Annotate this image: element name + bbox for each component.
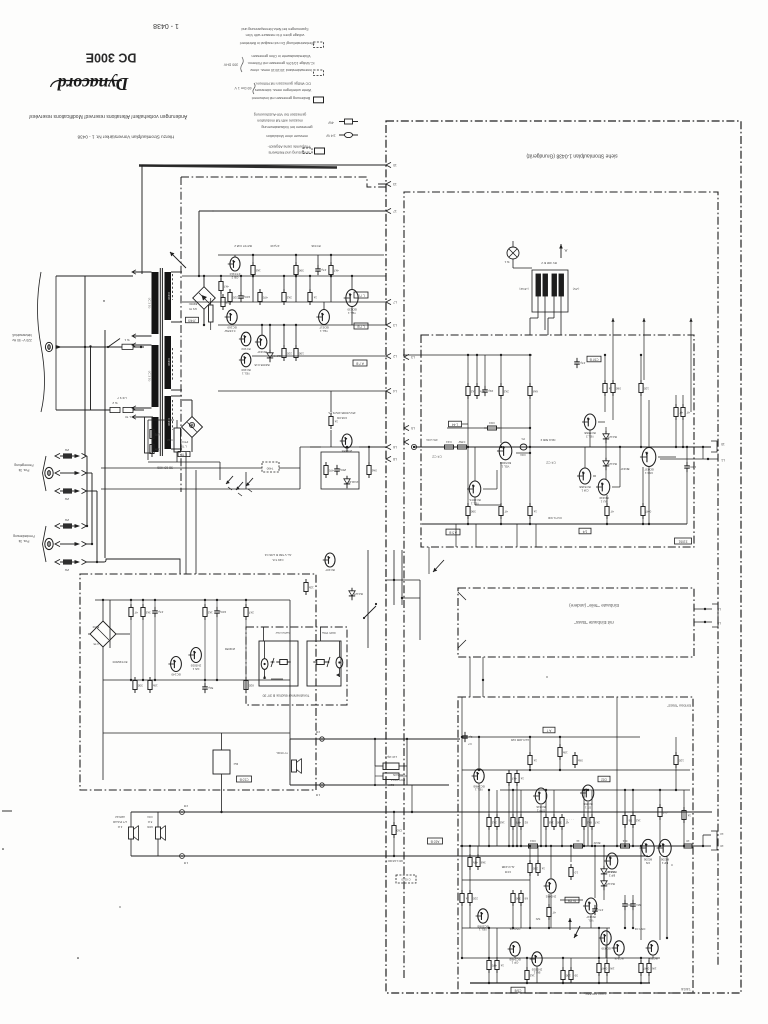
netzteil lower rail (102, 733, 104, 780)
svg-text:C230: C230 (167, 358, 171, 366)
arrow A marker (560, 244, 562, 258)
wire bridge Gr2 down-leads (185, 452, 187, 574)
resistor R26 (368, 462, 370, 466)
svg-text:L5: L5 (411, 426, 415, 430)
svg-text:Spannungen bei Netz-Nennspannu: Spannungen bei Netz-Nennspannung und (241, 27, 308, 31)
box C extra resistor Rb (683, 807, 685, 811)
svg-text:47µ: 47µ (158, 610, 163, 614)
svg-text:1k: 1k (687, 813, 691, 817)
svg-text:AL-V 560 B L/26 C4: AL-V 560 B L/26 C4 (264, 553, 291, 557)
transistor T1 (230, 257, 240, 271)
svg-text:S/N: S/N (536, 917, 541, 921)
box C h-resistor on bus 1 (525, 845, 529, 847)
box A resistor column x477 (476, 383, 478, 387)
svg-text:L3: L3 (393, 323, 397, 327)
box A capacitor C101 (576, 358, 578, 362)
box C boxed label A7 (543, 727, 555, 733)
svg-text:56: 56 (628, 818, 632, 822)
box A boxed label quarter (579, 528, 591, 534)
svg-text:C96 D6: C96 D6 (337, 416, 348, 420)
box C capacitor C203 (464, 732, 466, 736)
box C A arrow (569, 918, 571, 930)
box C boxed label k8 (565, 897, 579, 903)
transistor T101 (499, 442, 512, 460)
designation box C7B-1 (354, 292, 368, 298)
legend text block (240, 27, 315, 155)
svg-text:1 B: 1 B (316, 793, 320, 797)
svg-text:C8W: C8W (459, 440, 466, 444)
svg-text:C64: C64 (520, 453, 526, 457)
transformer Tr1 primary taps (133, 271, 152, 273)
svg-text:47: 47 (610, 509, 614, 513)
svg-text:GS 1: GS 1 (192, 667, 199, 671)
transistor T208 (606, 853, 618, 869)
scan speck 3 (77, 957, 79, 959)
svg-text:messure ohne Modulation: messure ohne Modulation (266, 134, 307, 138)
svg-text:3k3: 3k3 (146, 610, 151, 614)
capacitor C12 (317, 265, 319, 269)
svg-text:Si 1: Si 1 (124, 338, 130, 342)
svg-text:10: 10 (686, 839, 690, 843)
box C capacitor C201 (624, 900, 626, 904)
box C arrow marker (574, 926, 580, 938)
wire supply rail 325 (218, 324, 386, 326)
svg-text:measure with full modulation: measure with full modulation (257, 118, 303, 122)
resistor R22 (151, 426, 153, 430)
svg-text:C-0100: C-0100 (401, 878, 411, 882)
svg-text:13: 13 (720, 832, 724, 836)
svg-text:12k: 12k (308, 585, 313, 589)
box A resistor x501 (500, 383, 502, 387)
capacitor C11 (240, 292, 242, 296)
svg-text:( C 3 0 ): ( C 3 0 ) (148, 371, 152, 382)
svg-text:L2: L2 (393, 354, 397, 358)
speaker LS3 (292, 760, 297, 772)
resistor R24 (330, 413, 332, 417)
wire supply rail 276 (230, 275, 386, 277)
wire supply rail 356 (252, 355, 386, 357)
svg-text:C75: C75 (93, 642, 99, 646)
transformer Tr1 core (159, 268, 161, 456)
svg-text:220: 220 (232, 295, 237, 299)
svg-text:220 V~ 50 Hz: 220 V~ 50 Hz (12, 338, 32, 342)
transistor T3 (241, 332, 251, 346)
svg-text:Einbaute "Teile" (andere): Einbaute "Teile" (andere) (569, 603, 619, 608)
frame terminal L2 (386, 353, 391, 358)
svg-text:C67 B: C67 B (590, 357, 599, 361)
transistor T105 (598, 479, 610, 495)
svg-text:10k: 10k (562, 750, 567, 754)
resistor R13 (252, 262, 254, 266)
led arrows cluster (226, 476, 233, 484)
svg-text:J74/9: J74/9 (188, 318, 196, 322)
svg-text:4k7: 4k7 (224, 284, 229, 288)
svg-text:5k6: 5k6 (372, 468, 377, 472)
svg-text:47µ/40: 47µ/40 (270, 244, 279, 248)
transistor T206 (582, 785, 594, 801)
svg-text:1k: 1k (533, 509, 537, 513)
svg-text:C4 C2: C4 C2 (432, 455, 442, 459)
svg-text:7400: 7400 (266, 466, 273, 470)
aux input 1 connector (45, 467, 53, 478)
svg-text:AL/V-4/9B: AL/V-4/9B (502, 865, 515, 869)
svg-text:2W: 2W (65, 568, 70, 572)
svg-text:390: 390 (470, 509, 475, 513)
svg-text:2k7: 2k7 (249, 610, 254, 614)
svg-text:C62: C62 (601, 777, 607, 781)
legend symbol solid box (314, 97, 324, 103)
svg-text:BA127: BA127 (607, 462, 616, 466)
mains brace (38, 272, 45, 412)
strip resistor R27 (305, 579, 307, 583)
svg-text:3 B: 3 B (184, 804, 188, 808)
transistor T202 (478, 909, 488, 923)
transistor T204 (532, 952, 542, 966)
connector plug circle (507, 247, 519, 259)
strip diode D13 (351, 588, 353, 591)
box A resistor x683 (682, 404, 684, 408)
svg-text:0.47: 0.47 (643, 966, 649, 970)
svg-text:1 - 0438: 1 - 0438 (153, 22, 179, 29)
netzteil resistor R33 (204, 604, 206, 608)
wires strip below box A (428, 547, 430, 574)
svg-text:CM 1: CM 1 (581, 488, 588, 492)
meter M1 slash element (271, 658, 274, 667)
wire mains to fuse (56, 345, 63, 349)
svg-text:DC-Wdtge gemessen mit Röhrenv.: DC-Wdtge gemessen mit Röhrenv. (255, 81, 310, 85)
svg-text:69 Dm 1 V: 69 Dm 1 V (234, 86, 252, 90)
box C vertical wires (478, 737, 480, 768)
svg-text:OS/Y-04: OS/Y-04 (634, 927, 645, 931)
svg-text:Einbau "Bass": Einbau "Bass" (666, 703, 691, 707)
svg-text:BZY97: BZY97 (271, 354, 281, 358)
svg-text:L/T PULAR: L/T PULAR (113, 820, 127, 824)
svg-text:1 B: 1 B (184, 861, 188, 865)
meter resistor R42 (313, 661, 317, 663)
svg-text:1k5: 1k5 (256, 268, 261, 272)
svg-text:Pos. 3k: Pos. 3k (18, 468, 29, 472)
svg-text:L70: L70 (154, 432, 159, 436)
svg-text:GP 1: GP 1 (511, 961, 518, 965)
box A resistor column x468 (467, 383, 469, 387)
wire mains riser to supply (90, 347, 92, 410)
svg-text:10: 10 (574, 870, 578, 874)
svg-text:1k5: 1k5 (549, 820, 554, 824)
strip switch (364, 606, 376, 618)
box A horizontal links (474, 497, 476, 505)
box C boxed label C62 (598, 776, 610, 782)
svg-text:47: 47 (134, 610, 138, 614)
svg-text:6k8: 6k8 (533, 389, 538, 393)
aux 2 row resistor R2d (55, 559, 60, 564)
svg-text:47n: 47n (598, 908, 603, 912)
svg-text:mit Einbaute "Bass": mit Einbaute "Bass" (574, 620, 614, 625)
thermistor block (190, 428, 192, 430)
svg-text:1k2: 1k2 (208, 610, 213, 614)
svg-text:2k2: 2k2 (492, 820, 497, 824)
wire relay to speaker rail (221, 785, 223, 812)
transistor T10 (171, 657, 182, 672)
box A diode D102 (605, 458, 607, 461)
svg-text:100µ: 100µ (219, 610, 226, 614)
frame terminal 13 (386, 181, 391, 186)
svg-text:BC/R: BC/R (594, 841, 601, 845)
wire stub x691 (690, 318, 692, 412)
svg-text:47: 47 (552, 910, 556, 914)
svg-text:13: 13 (393, 182, 397, 186)
legend symbol dashed box 2 (314, 70, 324, 75)
svg-text:Netzanschluß: Netzanschluß (12, 333, 32, 337)
box A top rail (403, 354, 532, 356)
box A right bracket (711, 441, 717, 452)
svg-text:Tonabnehmer-Buchse B 3/7 30: Tonabnehmer-Buchse B 3/7 30 (263, 694, 310, 698)
box A channel-1 dash-dot frame (421, 335, 694, 547)
strip wires (393, 812, 395, 825)
svg-text:BA127: BA127 (353, 592, 362, 596)
svg-text:L5: L5 (717, 607, 721, 611)
svg-text:Si 2: Si 2 (112, 401, 118, 405)
svg-text:PTC/R: PTC/R (180, 440, 188, 444)
box A lower resistor x530 (529, 503, 531, 507)
frame terminal L8 (386, 456, 391, 461)
capacitor C104 (383, 773, 399, 780)
speaker LS2 (156, 827, 161, 839)
box C rail 958 (462, 957, 660, 959)
aux 1 row direct (55, 470, 60, 475)
svg-text:C104: C104 (387, 783, 394, 787)
legend symbol dashed box 1 (314, 42, 324, 47)
svg-text:BYX36: BYX36 (311, 244, 320, 248)
svg-text:A 7 B: A 7 B (356, 361, 364, 365)
box C bus terminals bracket (703, 834, 711, 836)
svg-text:4 Ω: 4 Ω (118, 825, 122, 829)
aux input 2 connector (45, 538, 53, 549)
choke Dr1 windings (536, 274, 541, 296)
aux 1 row resistor R2b (55, 488, 60, 493)
speaker drops (130, 812, 132, 827)
wire top feed (141, 165, 143, 274)
svg-text:C6/8: C6/8 (514, 988, 521, 992)
netzteil wires top (95, 599, 290, 601)
box A resistor x530 (529, 383, 531, 387)
transistor T7 (319, 310, 330, 325)
svg-text:L8: L8 (393, 457, 397, 461)
box C extra density wires (594, 846, 596, 898)
svg-text:8k2: 8k2 (587, 820, 592, 824)
wire stub x613 (612, 318, 614, 383)
transistor T205 (535, 788, 547, 804)
transistor T209 output (642, 839, 654, 856)
svg-text:0.15/5W: 0.15/5W (224, 329, 235, 333)
wire speaker top rail (131, 811, 712, 813)
svg-text:Fernregelung: Fernregelung (14, 463, 33, 467)
box A junction dots (467, 354, 469, 356)
sieb box 1 outline (259, 641, 298, 686)
svg-text:4W: 4W (328, 120, 334, 124)
svg-text:4k7: 4k7 (334, 268, 339, 272)
svg-text:L 70: L 70 (125, 415, 131, 419)
resistor R12 (229, 289, 231, 293)
box C rail 770 (462, 769, 690, 771)
relay designation (237, 776, 252, 782)
svg-text:Werte unterliegen mess. tolera: Werte unterliegen mess. tolerances (255, 88, 312, 92)
vertical wires below box A (455, 524, 457, 547)
frame terminal 17 (386, 208, 391, 213)
svg-text:AL/V-40B C26: AL/V-40B C26 (510, 738, 529, 742)
svg-text:1k5: 1k5 (500, 820, 505, 824)
strip resistor R51 (393, 822, 395, 826)
resistor R15 (283, 289, 285, 293)
svg-text:CU/YL 6/R B/W: CU/YL 6/R B/W (585, 992, 606, 996)
netzteil resistor R32 (142, 604, 144, 608)
transformer adjust arrow (170, 252, 186, 268)
svg-text:220: 220 (286, 351, 291, 355)
strip transistor T9 (325, 553, 335, 567)
capacitor C13 (336, 465, 338, 469)
wire to transformer third winding (133, 409, 144, 411)
wire rail 447 regulator (300, 446, 386, 448)
svg-text:330: 330 (137, 683, 142, 687)
wire mid rail 785 (290, 784, 449, 786)
svg-text:Dynacord: Dynacord (57, 74, 129, 94)
svg-text:BC140: BC140 (171, 673, 181, 677)
svg-text:1k: 1k (500, 963, 504, 967)
netzteil capacitor C33 (204, 683, 206, 687)
resistor R25 (325, 462, 327, 466)
meter M2 slash element (327, 657, 330, 667)
transformer G3 primary outline box (145, 417, 153, 453)
netzteil resistor R34 (245, 604, 247, 608)
svg-text:330: 330 (556, 820, 561, 824)
transistor T106 (642, 448, 656, 467)
frame terminal L3a (386, 322, 391, 327)
box A lower resistor x607 (606, 503, 608, 507)
svg-text:220: 220 (532, 866, 537, 870)
outer dash-dot frame Grundgeraet (386, 121, 741, 993)
aux 1 brace (43, 456, 47, 491)
svg-text:Änderungen vorbehalten! Alte: Änderungen vorbehalten! Alterations rese… (29, 113, 187, 120)
svg-text:BZY97 C48 2: BZY97 C48 2 (234, 244, 252, 248)
svg-text:10: 10 (720, 844, 724, 848)
Netzteil dash-dot frame (80, 574, 316, 790)
svg-text:1k: 1k (541, 866, 545, 870)
svg-text:BZX85 C15: BZX85 C15 (254, 363, 269, 367)
aux 2 brace (43, 526, 47, 562)
box C bottom rail (470, 982, 650, 984)
designation box A7B (353, 360, 367, 366)
box A boxed label C67B (587, 356, 601, 362)
strip boxed label A10B (428, 838, 443, 844)
svg-text:Werkseinstellung! Do not readj: Werkseinstellung! Do not readjust in Bet… (240, 41, 315, 45)
svg-text:Pos. 3k: Pos. 3k (18, 539, 29, 543)
power section dash-dot boundary (181, 177, 386, 187)
svg-text:100: 100 (298, 351, 303, 355)
meter M2 wires (338, 641, 340, 657)
svg-text:47p: 47p (580, 361, 585, 365)
box A lower resistor x643 (642, 503, 644, 507)
svg-text:470: 470 (515, 820, 520, 824)
svg-text:1/4 W: 1/4 W (326, 133, 336, 137)
scan speck 5 (546, 676, 547, 677)
aux column verticals (86, 456, 88, 526)
bridge rectifier Gr1 (193, 287, 216, 310)
transistor T207 (585, 898, 597, 914)
wire mains vertical riser (84, 276, 86, 456)
svg-text:1k: 1k (313, 295, 317, 299)
box C diode D201 (603, 866, 605, 869)
netzteil lower wires (102, 680, 104, 733)
svg-text:8 Ω: 8 Ω (148, 820, 152, 824)
box B dash-dot frame Einbau Teile (458, 588, 694, 657)
resistor R14 (259, 289, 261, 293)
svg-text:C64: C64 (530, 839, 536, 843)
box A left edge terminals (404, 354, 409, 359)
svg-text:4k7: 4k7 (512, 776, 517, 780)
svg-text:C230: C230 (167, 292, 171, 300)
svg-text:17: 17 (393, 209, 397, 213)
svg-text:0.22: 0.22 (167, 438, 173, 442)
transistor T203 (510, 942, 520, 956)
svg-text:BD437: BD437 (620, 467, 629, 471)
aux 2 row resistor R2c (55, 523, 60, 528)
resistor R16 (295, 262, 297, 266)
svg-text:NF/A 50B 3: NF/A 50B 3 (540, 438, 555, 442)
svg-text:47k LOG: 47k LOG (425, 438, 437, 442)
filter connections (374, 739, 376, 766)
transistor T102 (469, 481, 481, 497)
wire lower input horizontal (55, 276, 57, 410)
svg-text:1W: 1W (610, 966, 615, 970)
svg-text:45V+500B 40V/2,7A: 45V+500B 40V/2,7A (328, 411, 355, 415)
resistor R10 (222, 294, 224, 298)
box C rail 790 (500, 789, 690, 791)
inductor L10 (383, 763, 399, 770)
svg-text:10: 10 (721, 442, 725, 446)
transistor T212 (546, 879, 556, 893)
netzteil resistor R35 (134, 677, 136, 681)
resistor R11 (220, 278, 222, 282)
box C h-resistor on bus 2 (570, 845, 574, 847)
transistor T213 (614, 941, 624, 955)
box C main bus (460, 845, 703, 847)
svg-text:YEL 1: YEL 1 (479, 928, 487, 932)
svg-text:BRAUN: BRAUN (393, 773, 403, 777)
transistor T210 output (659, 839, 671, 856)
box A diode D101 (605, 431, 607, 434)
svg-text:31061: 31061 (678, 539, 687, 543)
resistor R19 (283, 345, 285, 349)
svg-text:C04: C04 (147, 815, 153, 819)
svg-text:(+5Vdc): (+5Vdc) (519, 287, 528, 291)
svg-text:2N3055: 2N3055 (225, 647, 236, 651)
svg-text:68n: 68n (636, 903, 641, 907)
svg-text:gemessen bei Voll-Aussteuerung: gemessen bei Voll-Aussteuerung (254, 112, 307, 116)
choke outline (532, 270, 568, 312)
designation box C7B-2 (354, 323, 368, 329)
svg-text:15k: 15k (154, 447, 159, 451)
svg-text:OS/Y-04: OS/Y-04 (509, 927, 520, 931)
netzteil junction dots (102, 599, 104, 601)
legend symbol pruefpunkt boxes (303, 148, 312, 153)
wire stub x644 (643, 318, 645, 380)
svg-text:A 7: A 7 (546, 728, 551, 732)
svg-text:4k7: 4k7 (663, 810, 668, 814)
svg-text:47µ: 47µ (321, 268, 326, 272)
box A boxed label L44 (449, 421, 462, 427)
svg-text:2k2: 2k2 (287, 295, 292, 299)
wires crossing into box A (529, 318, 531, 335)
svg-text:10: 10 (393, 163, 397, 167)
